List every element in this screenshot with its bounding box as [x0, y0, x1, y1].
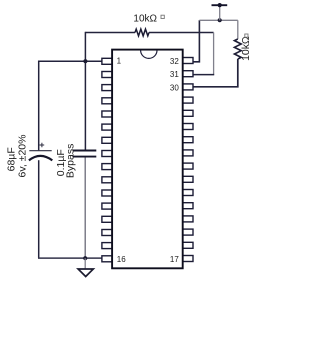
svg-text:17: 17	[170, 255, 179, 264]
svg-text:10kΩ: 10kΩ	[241, 36, 252, 61]
wire VCC rail top	[199, 19, 237, 21]
wire R2 bottom lead down and left to pin 30	[193, 59, 238, 87]
wire center vertical: top resistor wire down through pin1 junction to C2 top	[84, 32, 86, 151]
svg-text:31: 31	[170, 70, 179, 79]
wire bottom ground rail to pin 16	[38, 257, 102, 259]
ground symbol triangle	[78, 269, 93, 277]
IC U1 left pins 1-16	[102, 58, 112, 261]
svg-text:16: 16	[117, 255, 126, 264]
resistor R2 10k vertical zigzag	[234, 39, 241, 59]
capacitor C1 68uF top plate	[29, 150, 51, 152]
svg-text:1: 1	[117, 57, 122, 66]
polarity plus sign of C1	[40, 143, 45, 148]
IC U1 notch	[141, 50, 157, 58]
svg-text:32: 32	[170, 57, 179, 66]
capacitor C2 0.1uF bottom plate	[73, 156, 97, 158]
wire pin1 row: left rail to pin 1	[39, 60, 102, 62]
IC U1 right pins 32-17	[183, 58, 193, 262]
footnote mark after R1 value	[161, 15, 164, 18]
junction dot ground node	[83, 256, 87, 260]
wire pin31 vertical drop from R1 row	[213, 33, 215, 75]
power symbol VCC dot	[218, 3, 222, 7]
power symbol VCC bar	[212, 4, 228, 6]
capacitor C2 0.1uF top plate	[73, 150, 97, 152]
svg-text:6v, ±20%: 6v, ±20%	[16, 135, 28, 178]
svg-text:Bypass: Bypass	[65, 144, 77, 178]
wire center vertical: C2 bottom down to ground rail	[84, 157, 86, 259]
svg-text:30: 30	[170, 84, 179, 93]
wire left vertical: pin1 row down to C1 top	[38, 61, 40, 151]
svg-text:10kΩ: 10kΩ	[133, 14, 157, 25]
IC U1 body	[112, 50, 183, 269]
wire pin31 horizontal into pin 31	[193, 74, 214, 76]
resistor R1 10k horizontal zigzag	[135, 29, 149, 36]
ground stem	[84, 258, 86, 269]
junction dot VCC rail	[218, 18, 222, 22]
capacitor C1 68uF curved bottom plate	[29, 156, 52, 161]
footnote mark after R2 value	[245, 34, 248, 37]
wire top: R1 row from center vertical to pin31 drop	[85, 32, 213, 34]
power symbol VCC stem	[219, 5, 221, 20]
wire pin32 to VCC riser	[193, 20, 200, 62]
junction dot pin1 / R1 / C2 node	[83, 59, 87, 63]
wire left vertical: C1 bottom down to ground rail	[38, 160, 40, 258]
wire R2 top lead from VCC rail	[237, 20, 239, 39]
